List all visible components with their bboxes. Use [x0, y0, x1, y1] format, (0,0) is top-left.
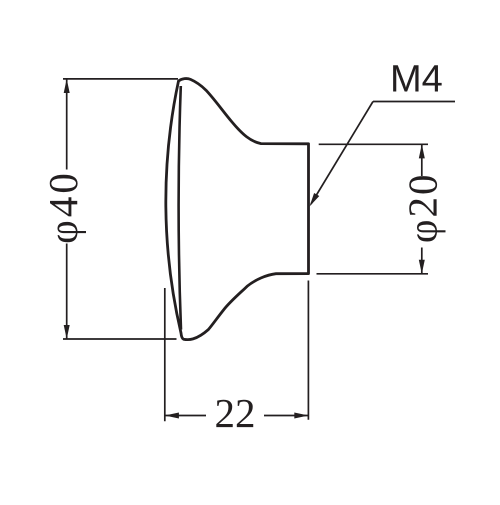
dim 22 right extension line: [307, 281, 309, 420]
dim phi40 dimension line top segment: [66, 79, 68, 170]
dim 22 dimension line left segment: [165, 415, 206, 417]
dim phi20 dimension line top segment: [421, 144, 423, 176]
dim phi20 arrow up: [419, 144, 425, 158]
dim phi40 dimension line bottom segment: [66, 244, 68, 340]
dim 22 dimension line right segment: [264, 415, 308, 417]
dim phi40 top extension line: [63, 78, 178, 80]
leader M4 diagonal: [311, 102, 373, 205]
svg-text:M4: M4: [390, 59, 443, 101]
knob face rim line: [179, 86, 181, 330]
leader M4 arrowhead: [310, 193, 320, 207]
leader M4 underline: [373, 101, 455, 103]
dim phi20 bottom extension line: [317, 273, 429, 275]
svg-text:22: 22: [215, 390, 256, 436]
dim 22 left extension line: [164, 288, 166, 421]
dim phi40 arrow down: [64, 325, 70, 339]
dim phi40 arrow up: [64, 79, 70, 93]
knob outline (side view silhouette): [166, 79, 309, 340]
dim phi20 arrow down: [419, 260, 425, 274]
dim phi20 top extension line: [319, 143, 428, 145]
dim phi40 bottom extension line: [63, 338, 177, 340]
svg-text:φ40: φ40: [40, 170, 86, 244]
dim phi20 dimension line bottom segment: [421, 248, 423, 274]
svg-text:φ20: φ20: [400, 172, 446, 243]
dim 22 arrow left: [165, 413, 179, 419]
dim 22 arrow right: [294, 413, 308, 419]
